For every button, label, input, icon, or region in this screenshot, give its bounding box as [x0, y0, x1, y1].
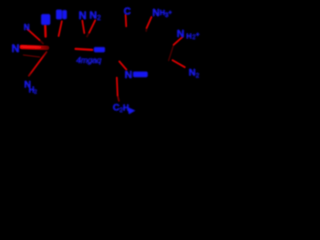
- wire bond R14: [116, 78, 119, 96]
- wire bond R9: [125, 15, 128, 26]
- wire bond R5: [89, 20, 95, 32]
- svg-text:2: 2: [97, 15, 101, 22]
- svg-text:C: C: [124, 6, 131, 17]
- svg-text:N: N: [79, 10, 87, 22]
- svg-text:2: 2: [34, 90, 37, 96]
- wire bond R14 tail: [118, 96, 119, 101]
- wire bond R11 faint continuation: [169, 45, 174, 60]
- wire bond R13: [119, 61, 126, 69]
- wire bond R1 tail: [40, 40, 44, 44]
- wire bond R12: [173, 60, 185, 67]
- wire bond R3: [59, 21, 62, 36]
- faint bond R7: [24, 55, 40, 57]
- svg-text:N: N: [24, 23, 30, 32]
- wire bond R5 tail: [87, 33, 89, 37]
- wire bond R11: [174, 37, 183, 45]
- node NH label B4 left part: [56, 10, 62, 19]
- wedge: [127, 107, 135, 114]
- svg-text:2: 2: [196, 73, 200, 80]
- double bond R6 bright core: [22, 45, 40, 48]
- wire bond R2: [44, 25, 47, 36]
- wire bond R8: [29, 52, 47, 76]
- node NH label B3: [41, 14, 50, 25]
- molecule canvas: [0, 0, 220, 123]
- svg-text:+: +: [196, 32, 200, 39]
- svg-text:+: +: [168, 10, 172, 16]
- svg-text:N: N: [177, 28, 185, 40]
- svg-text:N: N: [89, 9, 97, 21]
- node NH bar label B12: [94, 47, 105, 52]
- wire bond R4: [82, 21, 84, 33]
- wire bond R10 tail: [145, 28, 147, 31]
- svg-text:H: H: [186, 31, 191, 40]
- svg-text:N: N: [125, 69, 133, 81]
- svg-text:N: N: [152, 8, 159, 19]
- double bond R6 merged bar: [22, 45, 47, 50]
- svg-text:N: N: [12, 43, 20, 55]
- wire bond R15 horizontal: [76, 49, 93, 50]
- wire bond R10: [147, 17, 152, 28]
- svg-text:4mgaq: 4mgaq: [76, 55, 101, 65]
- wire bond R1: [28, 29, 40, 40]
- node NH label B4 right part: [63, 10, 67, 19]
